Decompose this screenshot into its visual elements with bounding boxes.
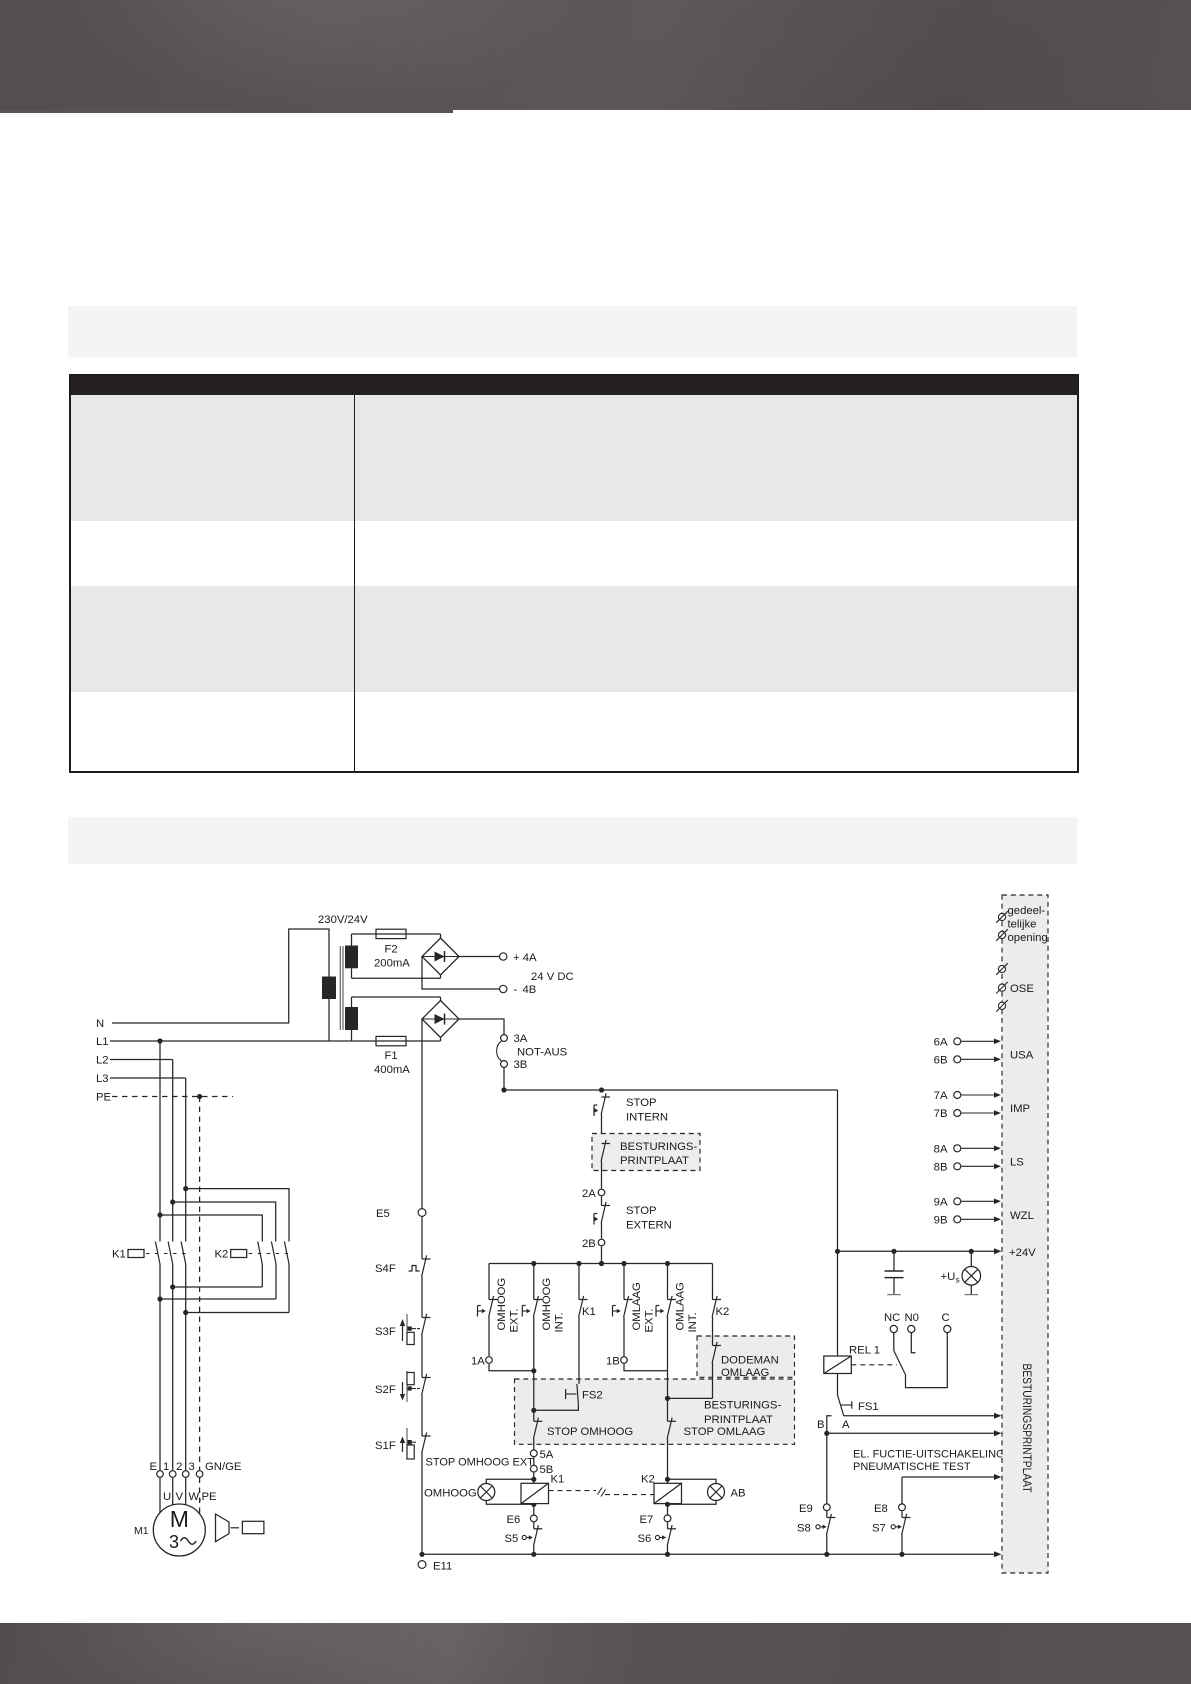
svg-text:+ 4A: + 4A (513, 952, 537, 964)
svg-text:PE: PE (96, 1092, 112, 1104)
svg-text:telijke: telijke (1008, 919, 1037, 931)
svg-text:E9: E9 (799, 1503, 813, 1515)
svg-text:-: - (514, 984, 518, 996)
svg-text:S6: S6 (638, 1533, 652, 1545)
svg-text:LS: LS (1010, 1157, 1024, 1169)
svg-text:C: C (942, 1312, 950, 1324)
svg-text:7A: 7A (934, 1090, 948, 1102)
svg-text:U: U (163, 1491, 171, 1503)
svg-text:NC: NC (884, 1312, 900, 1324)
svg-text:F2: F2 (385, 944, 398, 956)
svg-text:USA: USA (1010, 1050, 1034, 1062)
svg-text:STOP OMHOOG: STOP OMHOOG (547, 1426, 633, 1438)
svg-text:STOP: STOP (626, 1205, 657, 1217)
svg-text:DODEMAN: DODEMAN (721, 1355, 779, 1367)
svg-text:L2: L2 (96, 1055, 109, 1067)
svg-text:F1: F1 (385, 1050, 398, 1062)
svg-text:3: 3 (189, 1461, 195, 1473)
svg-text:PRINTPLAAT: PRINTPLAAT (620, 1155, 689, 1167)
svg-text:FS2: FS2 (582, 1390, 603, 1402)
svg-text:AB: AB (731, 1488, 746, 1500)
svg-text:L3: L3 (96, 1073, 109, 1085)
svg-text:24 V DC: 24 V DC (531, 971, 574, 983)
svg-text:OSE: OSE (1010, 983, 1034, 995)
svg-text:NOT-AUS: NOT-AUS (517, 1047, 568, 1059)
svg-text:K2: K2 (215, 1249, 229, 1261)
svg-text:E11: E11 (433, 1561, 452, 1573)
svg-text:PRINTPLAAT: PRINTPLAAT (704, 1414, 773, 1426)
svg-text:N0: N0 (905, 1312, 919, 1324)
svg-text:3: 3 (169, 1532, 179, 1552)
svg-text:2B: 2B (582, 1238, 596, 1250)
svg-text:BESTURINGS-: BESTURINGS- (620, 1141, 697, 1153)
svg-text:M: M (170, 1506, 189, 1532)
svg-text:S7: S7 (872, 1523, 886, 1535)
svg-text:N: N (96, 1018, 104, 1030)
svg-text:K2: K2 (716, 1306, 730, 1318)
svg-text:5A: 5A (540, 1449, 554, 1461)
svg-text:OMHOOG: OMHOOG (496, 1278, 508, 1331)
svg-text:INT.: INT. (687, 1312, 699, 1332)
svg-text:GN/GE: GN/GE (205, 1461, 242, 1473)
svg-text:8A: 8A (934, 1144, 948, 1156)
svg-text:+U: +U (941, 1271, 956, 1283)
svg-text:3B: 3B (514, 1059, 528, 1071)
svg-text:OMLAAG: OMLAAG (631, 1282, 643, 1330)
svg-text:8B: 8B (934, 1162, 948, 1174)
svg-text:INTERN: INTERN (626, 1112, 668, 1124)
svg-text:S2F: S2F (375, 1384, 396, 1396)
svg-text:3A: 3A (514, 1033, 528, 1045)
svg-text:OMHOOG: OMHOOG (424, 1488, 477, 1500)
svg-text:7B: 7B (934, 1108, 948, 1120)
svg-text:B: B (817, 1419, 825, 1431)
svg-text:M1: M1 (134, 1525, 149, 1537)
svg-text:EL. FUCTIE-UITSCHAKELING: EL. FUCTIE-UITSCHAKELING (853, 1449, 1005, 1461)
svg-text:6B: 6B (934, 1055, 948, 1067)
svg-text:S5: S5 (505, 1533, 519, 1545)
svg-text:400mA: 400mA (374, 1064, 410, 1076)
svg-text:INT.: INT. (553, 1312, 565, 1332)
svg-text:PE: PE (202, 1491, 218, 1503)
svg-text:S8: S8 (797, 1523, 811, 1535)
svg-text:PNEUMATISCHE TEST: PNEUMATISCHE TEST (853, 1461, 971, 1473)
svg-text:2A: 2A (582, 1188, 596, 1200)
svg-text:K1: K1 (551, 1474, 565, 1486)
svg-text:STOP OMLAAG: STOP OMLAAG (684, 1426, 766, 1438)
svg-text:BESTURINGSPRINTPLAAT: BESTURINGSPRINTPLAAT (1020, 1364, 1034, 1494)
svg-text:6A: 6A (934, 1037, 948, 1049)
svg-text:OMLAAG: OMLAAG (721, 1367, 769, 1379)
svg-text:4B: 4B (523, 984, 537, 996)
svg-text:A: A (842, 1419, 850, 1431)
svg-text:STOP: STOP (626, 1097, 657, 1109)
svg-text:S4F: S4F (375, 1263, 396, 1275)
svg-text:E7: E7 (640, 1514, 654, 1526)
svg-text:E: E (150, 1461, 158, 1473)
svg-text:BESTURINGS-: BESTURINGS- (704, 1400, 781, 1412)
svg-text:E8: E8 (874, 1503, 888, 1515)
svg-text:+24V: +24V (1009, 1247, 1036, 1259)
svg-text:2: 2 (176, 1461, 182, 1473)
svg-text:WZL: WZL (1010, 1210, 1034, 1222)
svg-text:E6: E6 (507, 1514, 521, 1526)
svg-text:FS1: FS1 (858, 1401, 879, 1413)
svg-text:s: s (956, 1276, 960, 1285)
svg-text:OMHOOG: OMHOOG (541, 1278, 553, 1331)
svg-text:OMLAAG: OMLAAG (675, 1282, 687, 1330)
svg-text:1B: 1B (606, 1356, 620, 1368)
svg-text:EXT.: EXT. (509, 1309, 521, 1333)
svg-text:K1: K1 (112, 1249, 126, 1261)
svg-text:9B: 9B (934, 1215, 948, 1227)
svg-text:L1: L1 (96, 1036, 109, 1048)
svg-text:K1: K1 (582, 1306, 596, 1318)
svg-text:230V/24V: 230V/24V (318, 914, 368, 926)
svg-text:1: 1 (163, 1461, 169, 1473)
svg-text:S1F: S1F (375, 1440, 396, 1452)
svg-text:EXTERN: EXTERN (626, 1220, 672, 1232)
svg-text:9A: 9A (934, 1197, 948, 1209)
svg-text:opening: opening (1008, 932, 1048, 944)
svg-text:V: V (176, 1491, 184, 1503)
svg-text:1A: 1A (471, 1356, 485, 1368)
svg-text:REL 1: REL 1 (849, 1345, 880, 1357)
svg-text:200mA: 200mA (374, 958, 410, 970)
svg-text:S3F: S3F (375, 1326, 396, 1338)
svg-text:K2: K2 (641, 1474, 655, 1486)
svg-text:gedeel-: gedeel- (1008, 905, 1046, 917)
svg-text:EXT.: EXT. (644, 1309, 656, 1333)
svg-text:E5: E5 (376, 1208, 390, 1220)
svg-text:STOP OMHOOG EXT.: STOP OMHOOG EXT. (426, 1457, 536, 1469)
svg-text:IMP: IMP (1010, 1103, 1030, 1115)
